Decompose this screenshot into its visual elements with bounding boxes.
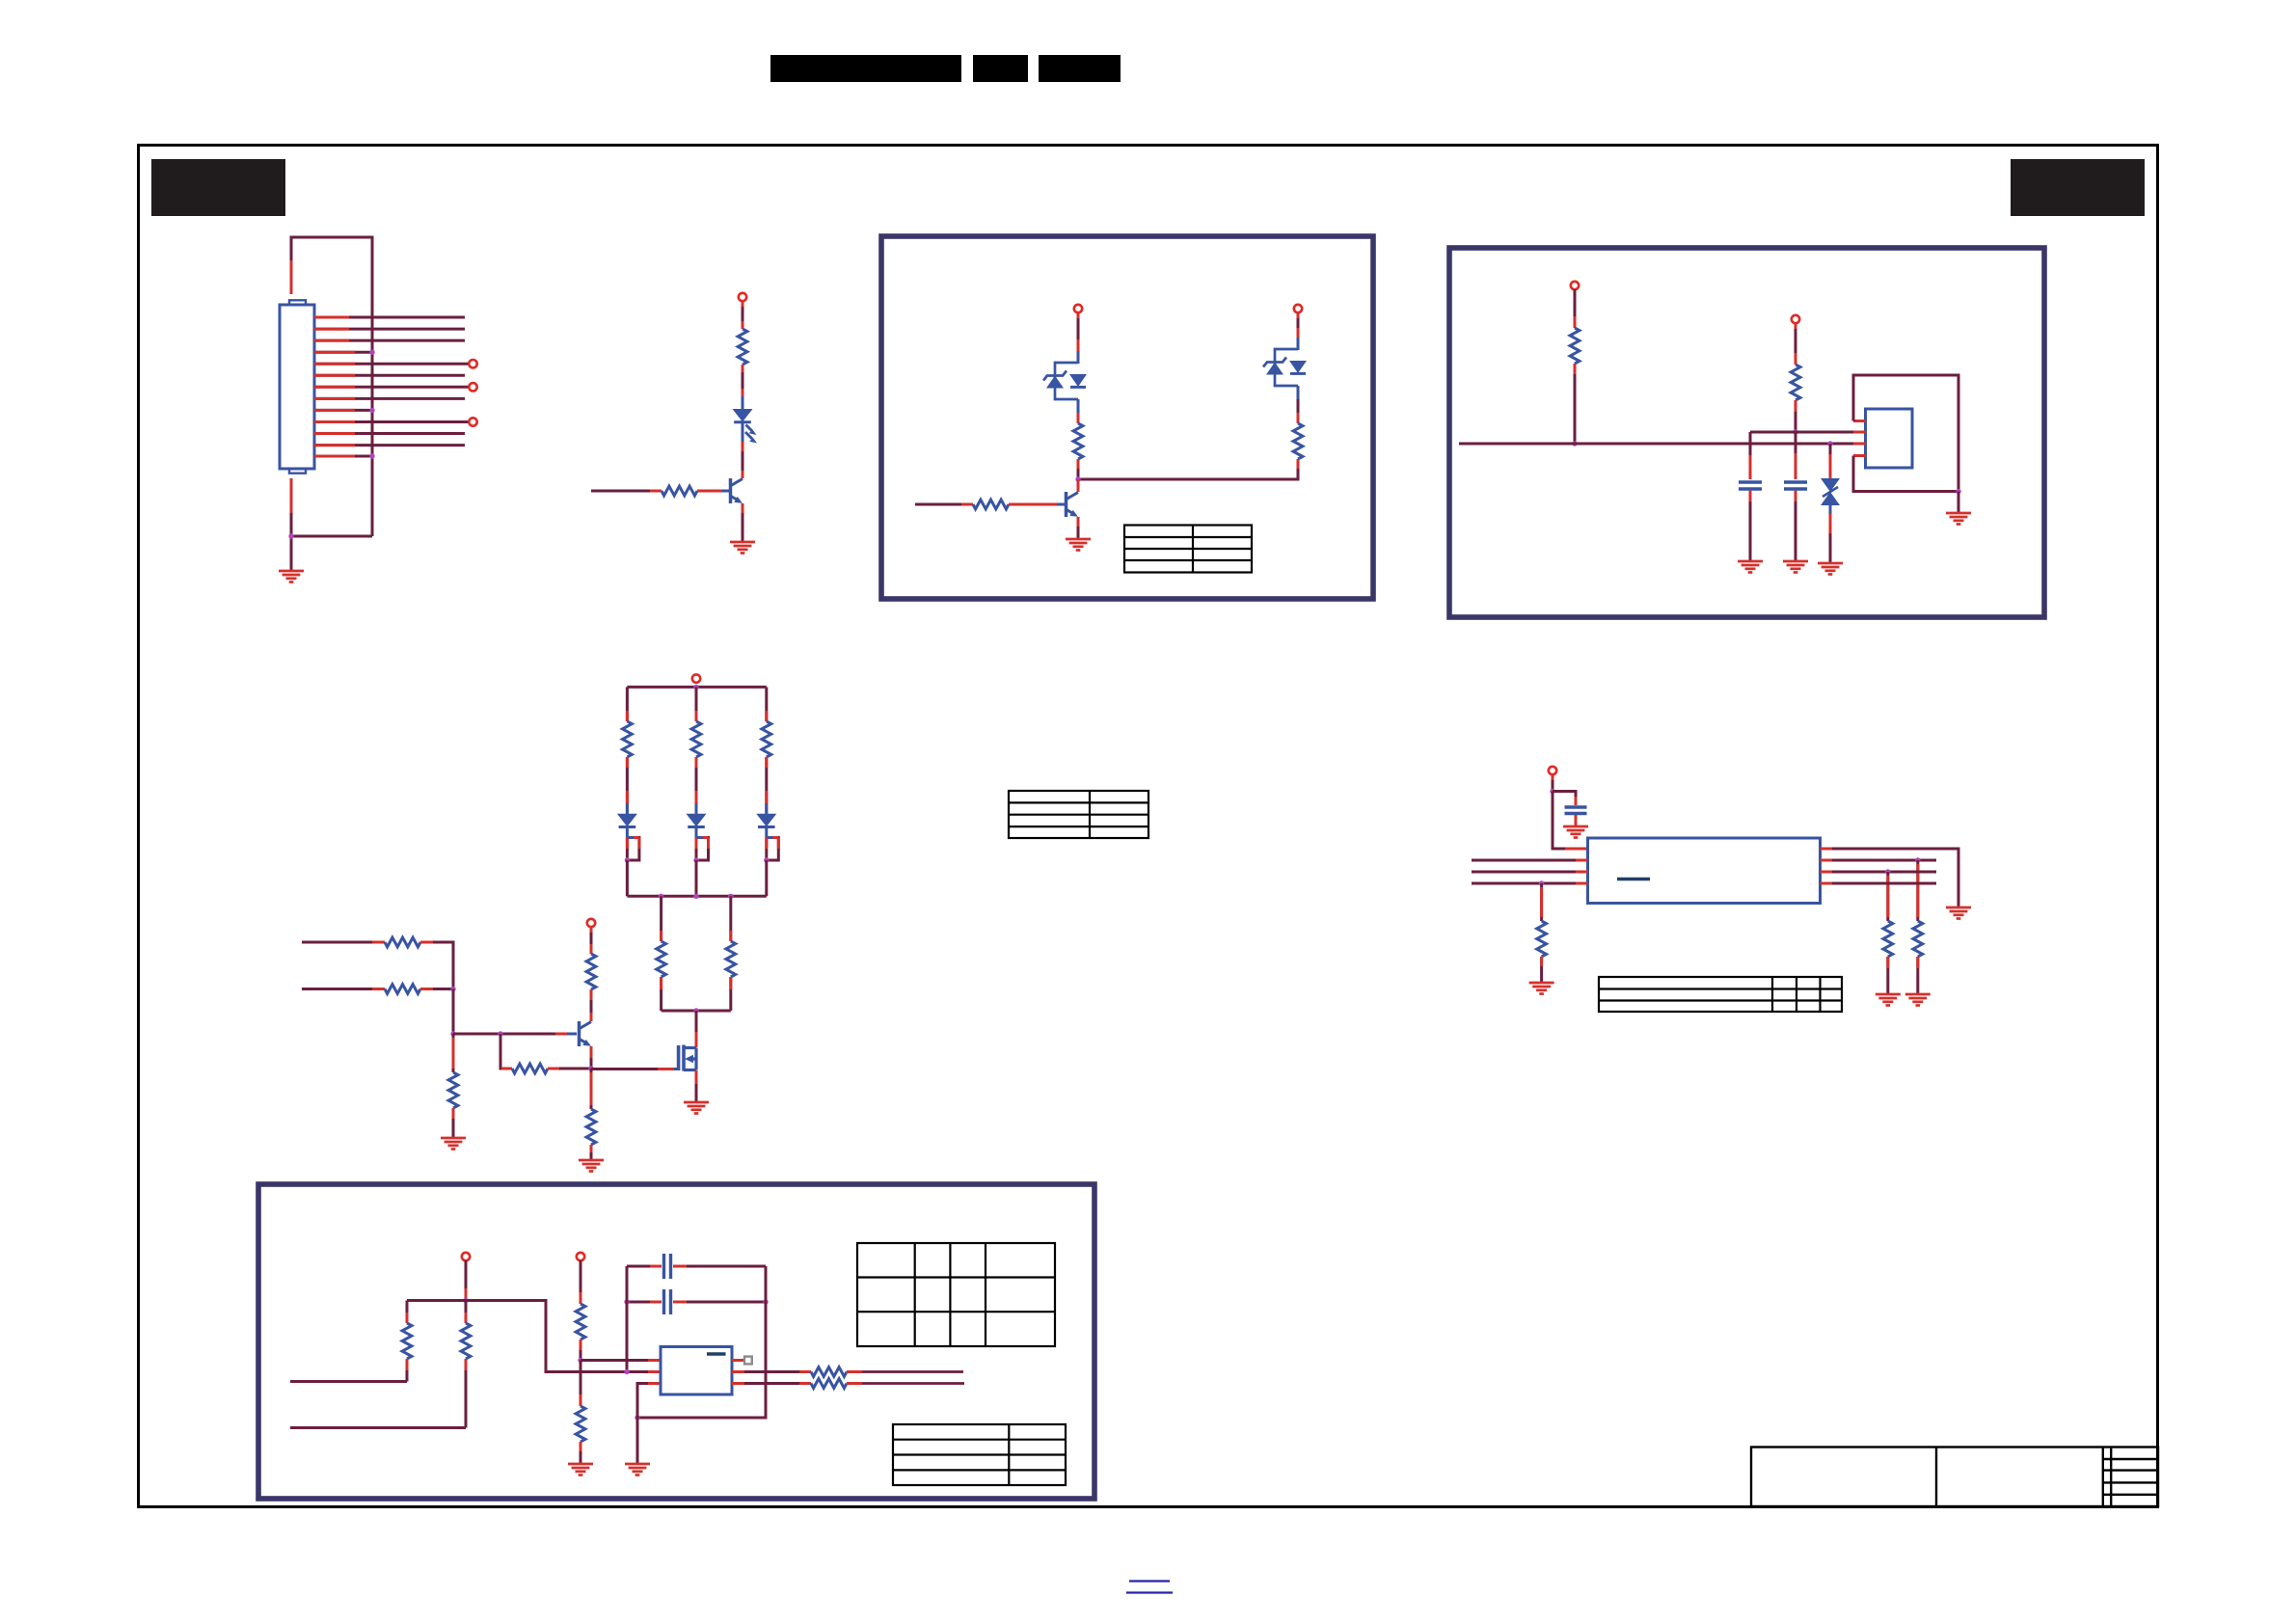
- wire node B down: [452, 989, 455, 1035]
- junction J1 pin 9: [369, 408, 374, 413]
- wire R13 to ground: [590, 1145, 593, 1159]
- junction branch 1: [625, 857, 630, 862]
- wire J1 pin 11: [314, 432, 465, 435]
- wire Q1 emitter to ground: [742, 503, 744, 541]
- wire R1 to LED D1: [742, 365, 744, 409]
- wire J1 pin 7: [314, 386, 469, 389]
- TVS diode Z3: [1821, 478, 1840, 505]
- junction node D: [498, 1031, 502, 1036]
- sub-circuit box 3 border: [258, 1184, 1094, 1499]
- wire J1 bottom: [291, 478, 372, 570]
- wire node D down to R11: [500, 1034, 512, 1069]
- wire pin7 node to R16: [1916, 860, 1919, 921]
- wire cap right loop: [637, 1266, 766, 1418]
- wire J1 pin 5: [314, 363, 469, 365]
- wire Z1 to R3: [1077, 399, 1080, 423]
- terminal LED bank supply: [692, 674, 700, 682]
- resistor R7: [1791, 365, 1800, 400]
- wire branch 2 down: [695, 860, 698, 896]
- wire node F to Rd: [580, 1361, 582, 1407]
- wire bus node down to Z3: [1829, 444, 1832, 478]
- sub-circuit box 2 border: [1449, 248, 2044, 617]
- resistor R15: [1883, 921, 1893, 957]
- wire branch 1 down: [626, 860, 629, 896]
- wire node to C3: [1553, 792, 1576, 806]
- LED D2: [617, 814, 637, 827]
- wire U3 out2: [732, 1382, 811, 1385]
- resistor R6: [1570, 328, 1580, 364]
- wire LED supply: [742, 301, 744, 329]
- junction loop ground node: [1956, 489, 1960, 494]
- junction U2 pin7 node: [1915, 857, 1920, 862]
- wire U2 pin4: [1472, 882, 1588, 885]
- terminal J1 pin 7: [469, 383, 476, 391]
- junction node C: [450, 1031, 455, 1036]
- schematic frame border: [139, 146, 2158, 1507]
- junction J1 pin 4: [369, 350, 374, 355]
- junction U2 supply node: [1550, 789, 1554, 794]
- wire node C to R10: [452, 1034, 455, 1072]
- wire node to U2 pin1: [1553, 792, 1588, 850]
- wire C2 to ground: [1795, 491, 1797, 560]
- resistor R3: [1073, 423, 1083, 459]
- resistor Re: [811, 1367, 847, 1377]
- table U2 notes: [1599, 977, 1842, 1012]
- IC U2 label mark: [1617, 878, 1650, 880]
- wire input A box3: [290, 1380, 407, 1383]
- wire R14 to ground: [1540, 957, 1543, 982]
- resistor Rb branch: [461, 1301, 471, 1428]
- wire R8 to corner: [420, 942, 453, 989]
- MOSFET M1: [679, 1045, 696, 1071]
- resistor R14: [1537, 921, 1547, 957]
- wire T1 down to bus: [465, 1260, 468, 1301]
- LED D4: [756, 814, 776, 827]
- terminal box2 R7 supply: [1792, 315, 1799, 323]
- wire supply node: [1552, 774, 1554, 792]
- wire R7 to pin2 line: [1795, 400, 1797, 432]
- resistor R13: [586, 1109, 596, 1145]
- wire U1 pin stubs left: [1853, 421, 1866, 456]
- fuse link branch 3: [767, 827, 779, 861]
- junction U2 pin4 node: [1539, 880, 1544, 885]
- terminal box3 T1: [462, 1253, 470, 1260]
- resistor R1: [738, 329, 747, 365]
- wire Rd to ground: [580, 1442, 582, 1463]
- resistor R16: [1913, 921, 1923, 957]
- wire T2 to Rc: [580, 1260, 582, 1304]
- wire D1 cathode to Q1 collector: [742, 422, 744, 478]
- junction branch 2: [693, 857, 698, 862]
- capacitor C3: [1565, 807, 1587, 814]
- wire box1 right supply to TVS Z2: [1297, 312, 1300, 350]
- IC U1 body: [1866, 409, 1913, 468]
- wire Re out: [847, 1370, 963, 1373]
- wire U3 DNC pin: [732, 1359, 744, 1362]
- wire Q3 emitter to node E: [590, 1046, 593, 1069]
- wire R9 to node B: [420, 988, 453, 990]
- wire R10 to ground: [452, 1108, 455, 1137]
- wire box2 long bus: [1459, 443, 1853, 446]
- resistor Rf: [811, 1379, 847, 1389]
- wire loop to ground: [1958, 492, 1960, 513]
- wire R15 to ground: [1886, 957, 1889, 993]
- resistor R12: [586, 954, 596, 989]
- junction top bus supply: [693, 685, 698, 690]
- junction bottom bus mid: [693, 894, 698, 899]
- junction J1 bottom node: [288, 533, 293, 538]
- resistor R8: [385, 937, 420, 947]
- transistor Q3: [580, 1021, 592, 1046]
- terminal box1 left supply: [1074, 305, 1082, 312]
- sub-circuit box 1 border: [881, 236, 1373, 599]
- terminal J1 pin 5: [469, 360, 476, 367]
- junction node E: [588, 1066, 593, 1070]
- wire U2 pin3: [1472, 871, 1588, 874]
- resistor R11: [501, 1064, 591, 1073]
- table box3 upper: [857, 1243, 1055, 1346]
- wire node E to R13: [590, 1069, 593, 1109]
- wire J1 pin 10: [314, 420, 469, 423]
- title block: [1751, 1448, 2158, 1507]
- junction R6 bus: [1572, 441, 1577, 446]
- wire J1 pin 1: [314, 316, 465, 319]
- wire Q2 base: [915, 503, 973, 506]
- junction bottom bus right: [728, 894, 733, 899]
- link underline 1: [1129, 1580, 1170, 1582]
- resistor Rc: [576, 1304, 585, 1340]
- wire U2 pin5: [1821, 882, 1937, 885]
- link underline 2: [1126, 1591, 1173, 1593]
- LED branch 1: [623, 687, 633, 813]
- wire Q1 base: [591, 490, 662, 493]
- junction U2 pin6 node: [1885, 869, 1890, 874]
- junction R7 node: [1793, 429, 1797, 434]
- IC U3 body: [661, 1347, 732, 1395]
- ground R16: [1905, 994, 1931, 1006]
- wire J1 top loop: [291, 237, 372, 536]
- wire node G to ground: [636, 1418, 639, 1463]
- junction bottom bus left: [659, 894, 663, 899]
- ground Q2 emitter: [1066, 539, 1091, 551]
- junction J1 pin 13: [369, 453, 374, 458]
- connector J1 body: [280, 300, 314, 473]
- resistor Rd: [576, 1406, 585, 1442]
- wire C1 to ground: [1749, 491, 1752, 560]
- wire pin4 node to R14: [1540, 883, 1543, 921]
- wire node A to Q2 collector: [1077, 479, 1080, 492]
- wire box1 left supply to TVS Z1: [1077, 312, 1080, 364]
- ground Rd: [568, 1464, 593, 1475]
- terminal box3 T2: [577, 1253, 584, 1260]
- junction branch 3: [764, 857, 769, 862]
- title redaction bar 2: [973, 55, 1028, 82]
- ground R10: [441, 1138, 466, 1150]
- capacitor C2: [1784, 482, 1807, 489]
- wire sense node to M1 drain: [695, 1011, 698, 1047]
- wire J1 pin 12: [314, 444, 465, 447]
- black label box top-right: [2011, 159, 2145, 216]
- wire supply to R6: [1574, 289, 1577, 328]
- resistor R2: [662, 486, 697, 496]
- wire node C to Q3 base: [453, 1033, 577, 1036]
- resistor R4: [1293, 423, 1303, 459]
- terminal box1 right supply: [1294, 305, 1302, 312]
- wire supply to R12: [590, 927, 593, 954]
- LED branch 2: [691, 687, 701, 813]
- title redaction bar 3: [1039, 55, 1121, 82]
- wire node G to U3 pin3: [637, 1384, 661, 1419]
- wire J1 pin 9: [314, 409, 372, 412]
- wire box2 pin2 line: [1750, 431, 1853, 434]
- wire sense join bus: [662, 1010, 731, 1013]
- wire pin6 node to R15: [1886, 872, 1889, 921]
- table box1 notes: [1124, 526, 1252, 573]
- wire J1 pin 4: [314, 351, 372, 354]
- ground R15: [1876, 994, 1901, 1006]
- wire U2 pin8 to ground: [1821, 849, 1959, 907]
- wire R12 to Q3 collector: [590, 989, 593, 1021]
- wire M1 source to ground: [695, 1070, 698, 1101]
- ground M1 source: [684, 1102, 709, 1114]
- wire input B box3: [290, 1426, 466, 1429]
- transistor Q1: [731, 478, 743, 503]
- wire Z2 to R4: [1297, 386, 1300, 423]
- junction bus TVS node: [1827, 441, 1832, 446]
- terminal LED supply: [739, 293, 746, 301]
- wire U3 out1: [732, 1370, 811, 1373]
- terminal J1 pin 10: [469, 418, 476, 425]
- wire node F to U3 pin1: [581, 1359, 661, 1362]
- black label box top-left: [151, 159, 285, 216]
- terminal U2 supply: [1549, 767, 1556, 774]
- capacitor C5: [627, 1289, 766, 1314]
- junction C5 left: [624, 1299, 629, 1304]
- wire U2 pin2: [1472, 859, 1588, 862]
- wire supply to R7: [1795, 323, 1797, 365]
- ground U1 loop: [1946, 513, 1971, 525]
- wire J1 pin 3: [314, 339, 465, 342]
- ground Q1 emitter: [730, 542, 755, 554]
- wire Rf out: [847, 1382, 964, 1385]
- ground R13: [579, 1160, 604, 1172]
- junction node A: [1075, 476, 1080, 481]
- ground J1: [279, 571, 304, 582]
- LED D3: [687, 814, 707, 827]
- wire J1 pin 13: [314, 455, 372, 458]
- sense resistor branch right: [726, 896, 736, 1011]
- junction node B: [450, 987, 455, 991]
- wire R2 to Q1 base: [697, 490, 721, 493]
- wire R16 to ground: [1916, 957, 1919, 993]
- resistor R10: [448, 1072, 458, 1108]
- title redaction bar 1: [770, 55, 961, 82]
- junction loop node G: [635, 1415, 639, 1420]
- wire R7 node down to C2: [1795, 432, 1797, 479]
- junction T1 bus: [463, 1298, 468, 1303]
- ground Z3: [1818, 563, 1843, 575]
- wire U2 pin6: [1821, 871, 1937, 874]
- wire branch 3 down: [765, 860, 768, 896]
- sense resistor branch left: [657, 896, 666, 1011]
- fuse link branch 1: [627, 827, 639, 861]
- ground C3: [1563, 826, 1588, 838]
- IC U2 body: [1588, 838, 1821, 904]
- LED branch 3: [762, 687, 771, 813]
- wire cap left vertical: [626, 1266, 629, 1372]
- wire Rc to node F: [580, 1340, 582, 1361]
- LED D1: [733, 409, 758, 444]
- wire R5 to Q2 base: [1009, 503, 1057, 506]
- wire Q2 emitter to ground: [1077, 517, 1080, 538]
- TVS diode pair Z1: [1043, 363, 1087, 399]
- wire corner down to C1: [1749, 432, 1752, 479]
- ground node G: [625, 1464, 650, 1475]
- wire U1 wrap loop: [1853, 375, 1958, 492]
- wire R3 to node A: [1077, 459, 1080, 479]
- wire input B: [302, 988, 385, 990]
- table middle notes: [1009, 791, 1148, 838]
- table box3 lower: [893, 1424, 1066, 1485]
- wire C3 to ground: [1575, 815, 1578, 826]
- ground U2 pin8: [1946, 907, 1971, 919]
- junction U3 pin2 node: [624, 1369, 629, 1374]
- transistor Q2: [1067, 492, 1079, 517]
- wire J1 pin 2: [314, 328, 465, 331]
- capacitor C4: [627, 1254, 766, 1279]
- resistor Ra branch: [402, 1301, 412, 1382]
- junction sense node: [693, 1008, 698, 1013]
- junction node F: [578, 1358, 582, 1363]
- wire pin2 stub: [648, 1370, 661, 1373]
- wire J1 pin 8: [314, 397, 465, 400]
- wire LED bank bottom bus: [627, 895, 766, 898]
- terminal Q3 collector supply: [587, 919, 595, 927]
- ground R14: [1529, 983, 1554, 994]
- wire R6 to bus node: [1574, 364, 1577, 444]
- TVS diode pair Z2: [1263, 349, 1307, 386]
- ground C2: [1783, 561, 1808, 573]
- resistor R5: [973, 500, 1009, 509]
- ground C1: [1738, 561, 1763, 573]
- capacitor C1: [1739, 482, 1762, 489]
- wire LED bank top bus: [627, 686, 766, 689]
- wire U2 pin7: [1821, 859, 1937, 862]
- IC U3 label mark: [707, 1352, 726, 1355]
- no-connect marker U3: [744, 1357, 752, 1365]
- wire box3 bus: [407, 1301, 648, 1372]
- terminal box2 R6 supply: [1571, 282, 1579, 289]
- wire input A: [302, 941, 385, 944]
- junction C5 right: [763, 1299, 768, 1304]
- wire Z3 to ground: [1829, 505, 1832, 562]
- fuse link branch 2: [696, 827, 709, 861]
- wire R4 down to node A: [1078, 459, 1298, 479]
- resistor R9: [385, 985, 420, 994]
- wire J1 pin 6: [314, 374, 465, 377]
- wire node E to M1 gate: [591, 1068, 679, 1070]
